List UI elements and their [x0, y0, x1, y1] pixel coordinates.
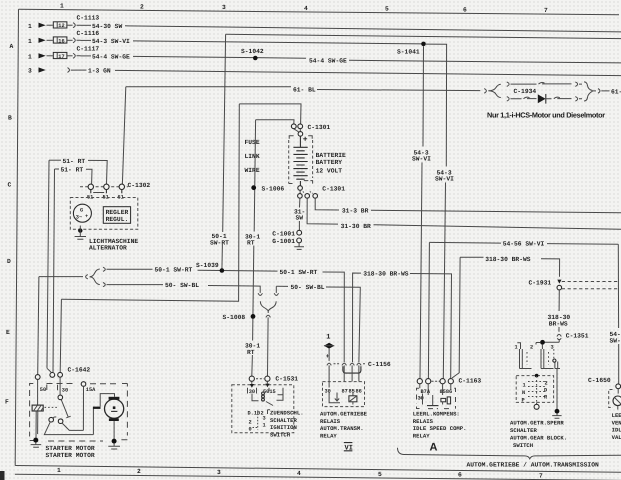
off-page arrow 1 (feed to relay) [324, 334, 334, 361]
ignition switch (ZUENDSCHL.SCHALTER / IGNITION SWITCH) [232, 381, 304, 438]
svg-text:RELAIS: RELAIS [320, 418, 341, 425]
svg-text:4: 4 [304, 5, 308, 12]
svg-text:54-56 SW-VI: 54-56 SW-VI [503, 241, 545, 248]
svg-text:WIRE: WIRE [245, 167, 260, 174]
svg-text:D: D [544, 387, 547, 393]
svg-text:C: C [8, 182, 12, 189]
svg-text:3: 3 [263, 416, 266, 422]
svg-text:C-1163: C-1163 [459, 377, 482, 384]
connector C-1642 [35, 366, 90, 379]
svg-text:C-1301: C-1301 [322, 186, 345, 193]
svg-text:2: 2 [545, 380, 548, 386]
svg-text:1: 1 [60, 3, 64, 10]
wire 54- SW- (right edge riser) [610, 244, 621, 383]
wire fuse link (FUSE LINK WIRE) [245, 120, 295, 377]
svg-text:IGNITION: IGNITION [270, 424, 297, 431]
svg-text:51- RT: 51- RT [63, 158, 86, 165]
svg-text:5: 5 [378, 471, 382, 478]
alternator with regulator (LICHTMASCHINE / ALTERNATOR) [70, 190, 138, 252]
wire 61- BL [122, 86, 480, 184]
wire 31-30 BR [307, 198, 621, 230]
svg-text:C-1650: C-1650 [588, 377, 611, 384]
svg-text:2: 2 [137, 468, 141, 475]
wire 318-30 BR-WS (upper run to C-1931) [452, 256, 560, 378]
svg-text:F: F [5, 399, 9, 406]
svg-text:RELAY: RELAY [320, 433, 337, 440]
connector C-1931 [529, 279, 618, 290]
svg-text:AUTOM.TRANSM.: AUTOM.TRANSM. [320, 425, 364, 432]
svg-text:1: 1 [28, 23, 32, 30]
svg-text:BATTERY: BATTERY [316, 159, 343, 166]
connector C-1301 (battery top) [291, 124, 330, 131]
svg-text:RT: RT [247, 240, 255, 247]
bracket AUTOM.GETRIEBE / AUTOM.TRANSMISSION [398, 448, 621, 469]
battery BATTERIE 12 VOLT [289, 129, 346, 191]
svg-text:51- RT: 51- RT [61, 167, 84, 174]
gear selector switch AUTOM.GETR.SPERR SCHALTER [510, 340, 567, 449]
svg-text:50-1 SW-RT: 50-1 SW-RT [280, 269, 318, 276]
svg-text:G-1001: G-1001 [272, 238, 295, 245]
svg-text:SW-RT: SW-RT [210, 239, 229, 246]
svg-text:STARTER MOTOR: STARTER MOTOR [46, 452, 95, 459]
connector C-1116 pin 16 [28, 30, 99, 45]
svg-text:A: A [430, 442, 438, 454]
svg-text:AUTOM.GETR.SPERR: AUTOM.GETR.SPERR [510, 420, 564, 427]
harness merge connector (to ignition switch) [258, 293, 278, 376]
svg-text:3: 3 [28, 68, 32, 75]
wire 51- RT (lower) [53, 167, 92, 373]
wire battery positive feed 30 (corner x239) [60, 104, 301, 372]
wire 318-30 BR-WS (lower run from relay) [353, 271, 452, 379]
wire 50- SW-BL [115, 282, 360, 362]
svg-text:S-1039: S-1039 [196, 262, 219, 269]
wire 1-3 GN [28, 67, 621, 75]
wire 54-3 SW-VI [81, 38, 424, 45]
svg-text:VI: VI [345, 444, 353, 452]
svg-text:87: 87 [342, 388, 348, 394]
svg-text:SW-: SW- [610, 337, 621, 344]
svg-text:N: N [522, 390, 525, 396]
svg-text:318-30 BR-WS: 318-30 BR-WS [363, 271, 409, 278]
svg-text:D: D [7, 258, 11, 265]
splice S-1006 [251, 185, 284, 192]
svg-text:C-1642: C-1642 [68, 366, 91, 373]
svg-text:SCHALTER: SCHALTER [270, 417, 297, 424]
svg-text:2: 2 [530, 344, 533, 350]
svg-text:0: 0 [249, 427, 252, 433]
svg-text:3: 3 [551, 344, 554, 350]
svg-text:IDLE SPEED COMP.: IDLE SPEED COMP. [413, 425, 467, 432]
svg-text:16: 16 [58, 38, 64, 44]
svg-text:ZUENDSCHL.: ZUENDSCHL. [270, 410, 304, 417]
connector C-1934 with diode (Nur 1,1-i-HCS-Motor und Dieselmotor) [484, 82, 621, 120]
svg-text:SWITCH: SWITCH [513, 442, 533, 449]
svg-text:RT: RT [247, 349, 255, 356]
svg-text:SW-VI: SW-VI [412, 156, 431, 163]
svg-text:85: 85 [349, 388, 355, 394]
connector C-1650 with idle valve [588, 377, 621, 441]
svg-text:S-1042: S-1042 [241, 48, 264, 55]
svg-text:2: 2 [140, 3, 144, 10]
svg-text:FUSE: FUSE [245, 139, 260, 146]
svg-text:VALV: VALV [612, 434, 621, 441]
connector C-1156 [327, 361, 391, 373]
wire 51- RT (upper) [47, 158, 107, 368]
svg-text:SCHALTER: SCHALTER [510, 427, 537, 434]
svg-text:AUTOM.GETRIEBE / AUTOM.TRANSMI: AUTOM.GETRIEBE / AUTOM.TRANSMISSION [467, 461, 599, 468]
label 30-1 RT (lower) [245, 343, 260, 356]
svg-text:LEERL.KOMPENS:: LEERL.KOMPENS: [413, 410, 460, 417]
svg-text:1-3 GN: 1-3 GN [88, 68, 111, 75]
wire 31-3 BR [315, 198, 621, 214]
wire 51 feeds to starter (diagonal join) [47, 368, 53, 373]
svg-text:1: 1 [57, 467, 61, 474]
svg-text:AUTOM.GETRIEBE: AUTOM.GETRIEBE [320, 410, 368, 417]
svg-text:A: A [10, 43, 14, 50]
svg-text:C-1351: C-1351 [566, 332, 589, 339]
marker VI [344, 443, 353, 453]
svg-text:8586: 8586 [440, 389, 453, 395]
svg-text:B: B [8, 115, 12, 122]
svg-text:1: 1 [523, 382, 526, 388]
svg-text:D.10: D.10 [248, 410, 261, 416]
svg-text:12: 12 [58, 23, 64, 29]
svg-text:1: 1 [263, 423, 266, 429]
svg-text:7: 7 [539, 473, 543, 480]
marker A [430, 442, 438, 454]
svg-text:54-4 SW-GE: 54-4 SW-GE [309, 58, 347, 65]
svg-text:G: G [80, 207, 83, 213]
svg-text:C-1931: C-1931 [529, 279, 552, 286]
svg-text:C-1116: C-1116 [77, 30, 100, 37]
splice S-1008 [223, 314, 256, 321]
svg-text:IDLE: IDLE [612, 427, 621, 434]
wire 54-30 SW [81, 23, 621, 32]
svg-text:4: 4 [297, 470, 301, 477]
svg-text:+: + [85, 213, 88, 219]
svg-text:86: 86 [356, 388, 362, 394]
wire 50-1 SW-RT [115, 267, 344, 363]
svg-text:S-1041: S-1041 [397, 49, 420, 56]
splice S-1039 [196, 262, 224, 273]
svg-text:17: 17 [58, 54, 64, 60]
connector C-1301 (battery bottom) [298, 186, 346, 199]
svg-text:12 VOLT: 12 VOLT [316, 167, 343, 174]
svg-text:6: 6 [458, 472, 462, 479]
svg-text:50-1 SW-RT: 50-1 SW-RT [155, 267, 193, 274]
svg-text:3: 3 [217, 469, 221, 476]
svg-text:50- SW-BL: 50- SW-BL [165, 282, 199, 289]
svg-text:C-1113: C-1113 [77, 15, 100, 22]
svg-text:LINK: LINK [245, 153, 260, 160]
svg-text:50: 50 [40, 387, 46, 393]
svg-text:C-1934: C-1934 [514, 88, 537, 95]
wire from S-1039 up and across (unlabeled feed) [210, 34, 621, 270]
svg-text:1: 1 [326, 334, 330, 342]
starter motor (STARTER MOTOR) [30, 377, 128, 459]
label 30-1 RT (upper) [245, 233, 260, 246]
svg-text:C-1156: C-1156 [368, 361, 391, 368]
svg-text:SW-VI: SW-VI [435, 176, 454, 183]
svg-text:REGUL.: REGUL. [106, 216, 129, 223]
svg-text:C-1001: C-1001 [272, 230, 295, 237]
svg-text:3~: 3~ [76, 215, 82, 221]
svg-text:R: R [544, 394, 548, 400]
svg-text:P: P [522, 397, 525, 403]
connector C-1531 [249, 375, 298, 382]
svg-text:318-30 BR-WS: 318-30 BR-WS [485, 256, 531, 263]
svg-text:C-1301: C-1301 [308, 124, 331, 131]
svg-text:STARTER MOTOR: STARTER MOTOR [46, 445, 95, 452]
svg-text:61-: 61- [611, 88, 621, 95]
wire 54-3 SW-VI (left riser from S-1041) [412, 46, 431, 378]
svg-text:SWITCH: SWITCH [270, 432, 290, 439]
wire 318-30 BR-WS vertical with connector C-1351 [548, 290, 589, 342]
svg-text:LEER: LEER [612, 412, 621, 419]
svg-text:30: 30 [62, 388, 68, 394]
svg-text:61- BL: 61- BL [293, 86, 316, 93]
svg-text:5: 5 [385, 6, 389, 13]
svg-text:54-4 SW-GE: 54-4 SW-GE [92, 54, 130, 61]
splice S-1041 [397, 42, 426, 56]
svg-text:SW: SW [296, 215, 304, 222]
svg-text:C-1117: C-1117 [77, 45, 100, 52]
svg-text:RELAIS: RELAIS [413, 418, 434, 425]
svg-text:50- SW-BL: 50- SW-BL [291, 284, 325, 291]
svg-text:1: 1 [515, 344, 518, 350]
svg-text:15A: 15A [86, 387, 96, 393]
svg-text:Nur 1,1-i-HCS-Motor und Diesel: Nur 1,1-i-HCS-Motor und Dieselmotor [487, 111, 605, 120]
svg-text:7: 7 [544, 7, 548, 14]
svg-text:2: 2 [249, 419, 252, 425]
svg-text:6: 6 [463, 6, 467, 13]
svg-text:31-3 BR: 31-3 BR [342, 207, 369, 214]
svg-text:RELAY: RELAY [413, 433, 430, 440]
svg-text:AUTOM.GEAR BLOCK.: AUTOM.GEAR BLOCK. [510, 435, 567, 442]
wire 54-4 SW-GE [81, 54, 621, 65]
svg-text:+: + [303, 136, 308, 145]
wire 54-56 SW-VI [428, 241, 618, 379]
svg-text:1: 1 [28, 38, 32, 45]
svg-text:3: 3 [222, 4, 226, 11]
connector C-1113 pin 12 [28, 15, 99, 30]
svg-text:ALTERNATOR: ALTERNATOR [89, 245, 127, 252]
svg-text:VENT: VENT [612, 419, 621, 426]
connector C-1117 pin 17 [28, 45, 99, 60]
splice S-1042 [241, 48, 264, 60]
svg-text:31-30 BR: 31-30 BR [341, 223, 371, 230]
wire 31- SW with connector C-1001 and ground G-1001 [272, 198, 305, 249]
relay LEERL.KOMPENS: RELAIS / IDLE SPEED COMP.RELAY [413, 384, 467, 440]
relay AUTOM.GETRIEBE RELAIS / AUTOM.TRANSM.RELAY [320, 365, 368, 439]
harness split connector (50 feed) [38, 267, 115, 374]
connector C-1163 [417, 377, 481, 384]
svg-text:S-1008: S-1008 [223, 314, 246, 321]
svg-text:BR-WS: BR-WS [549, 320, 568, 327]
connector C-1302 pins 51 51 61 [80, 182, 150, 200]
svg-text:1: 1 [28, 53, 32, 60]
svg-text:C-1531: C-1531 [275, 375, 298, 382]
svg-text:REGLER: REGLER [106, 209, 129, 216]
svg-text:E: E [6, 329, 10, 336]
svg-text:S-1006: S-1006 [262, 185, 285, 192]
svg-text:C-1302: C-1302 [128, 182, 151, 189]
svg-text:30: 30 [325, 388, 331, 394]
svg-text:54-3 SW-VI: 54-3 SW-VI [92, 38, 130, 45]
wire 54-3 SW-VI (right riser from S-1041) [426, 44, 454, 378]
